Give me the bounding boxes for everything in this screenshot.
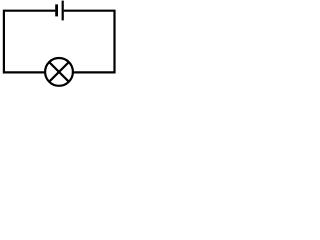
lamp L1: cross diagonal NW-SE: [49, 62, 69, 82]
circuit: single loop with cell and lamp: [0, 0, 120, 93]
wire: cell left terminal → top-left corner → left side → bottom-left corner → lamp left terminal: [4, 11, 56, 73]
wire: cell right terminal → top-right corner → right side → bottom-right corner → lamp right terminal: [64, 11, 115, 73]
cell BT1: short plate (negative terminal): [55, 4, 58, 16]
lamp L1: body circle: [45, 58, 73, 86]
cell BT1: long plate (positive terminal): [62, 1, 64, 21]
lamp L1: cross diagonal NE-SW: [49, 62, 69, 82]
